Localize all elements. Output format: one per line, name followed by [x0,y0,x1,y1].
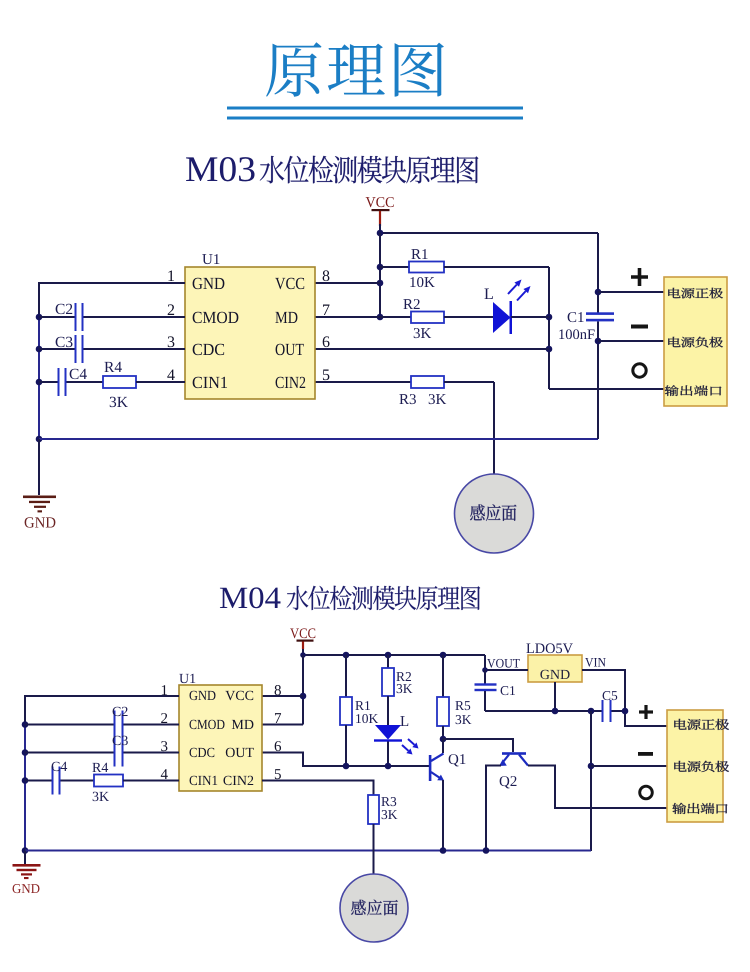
node VCC rail junction [377,230,384,237]
op IC U1 M03 [185,254,315,399]
wire R1 right [444,266,549,268]
pin numbers U1 left M03 [167,270,174,380]
pin numbers U1 right M03 [323,270,330,380]
wire C1 branch bottom [597,322,599,440]
node VCC rail corner [300,652,306,658]
wire bus to C3 [39,348,76,350]
wire MD row to R2 [315,316,411,318]
wire pin1 GND row M04 [25,696,179,725]
wire bus to C3 M04 [25,752,115,754]
capacitor C2 [56,303,84,331]
wire C5 to VIN vertical [612,710,626,712]
capacitor C2 M04 [113,707,128,739]
wire pin8 to bus M04 [262,695,303,697]
node plus row junction [595,289,602,296]
wire R2 top stub M04 [387,655,389,668]
wire bus to C4 [39,381,58,383]
wire C2 to pin2 [84,316,186,318]
connector port box M03 [664,277,727,406]
wire VCC stub to rail M04 [302,649,304,655]
node R1 bottom junction M04 [343,763,350,770]
output symbol O M03 [633,364,646,377]
wire GND stem M03 [38,439,40,495]
wire R4 to pin4 M04 [123,780,179,782]
wire bottom GND bus [39,438,598,440]
minus symbol M04 [638,752,653,756]
ground GND M03 [23,496,56,528]
plus symbol M04 [639,705,653,719]
wire rail to VOUT corner [485,655,528,670]
wire ground branch vertical [590,711,592,851]
wire R1 left [380,266,409,268]
node R1 top junction [343,652,350,659]
ground GND M04 [13,864,41,893]
node VOUT junction [482,667,488,673]
node pin8 junction M04 [300,693,307,700]
minus symbol M03 [631,325,648,329]
resistor R5 [437,697,471,726]
node OUT pin junction [546,346,553,353]
wire R2 to LED M04 [387,696,389,725]
wire plus row [598,291,664,293]
node LED cathode junction M04 [385,763,392,770]
heading M03水位检测模块原理图 [186,156,478,184]
transistor Q2 [499,752,528,788]
wire left GND bus [38,317,40,439]
wire ground rail M04 [485,710,602,712]
wire LED cathode down M04 [387,742,389,767]
node bottom bus left junction M04 [22,847,29,854]
LED L arrows M04 [402,739,419,755]
capacitor C3 M04 [113,736,128,767]
wire Q1 to Q2 base [443,739,513,752]
wire Q2 emitter to bus [486,766,501,852]
node C3 bus junction M04 [22,749,29,756]
resistor R3 [399,376,446,404]
pin names U1 right M03 [275,278,305,388]
LED L M04 [374,716,408,742]
pin names U1 left M04 [189,691,224,785]
wire R2 to LED anode [444,316,493,318]
wire pin6 OUT to base row M04 [262,753,429,767]
wire pin1 GND row [39,283,185,317]
pin label VIN [585,658,606,667]
wire output row [549,388,664,390]
capacitor C3 [56,335,84,363]
capacitor C4 [58,368,87,396]
sensor pad 感应面 M04 [340,874,408,942]
wire LED cathode to OUT node [511,316,549,318]
wire R4 to pin4 [136,381,185,383]
wire pin7 MD to bus M04 [262,724,303,726]
node LED cathode junction [546,314,553,321]
wire R5 top stub [442,655,444,697]
power flag VCC net M04 [290,628,315,649]
regulator LDO5V [526,643,582,682]
node C4 bus junction M04 [22,777,29,784]
node ground branch junction [588,708,595,715]
wire OUT node vertical [548,267,550,389]
node pin8 row junction [377,280,384,287]
pin label VOUT [487,659,520,668]
title 原理图 [266,42,444,97]
node Q2 emitter junction [483,847,490,854]
wire bus to C4 M04 [25,780,53,782]
wire C3 to pin3 M04 [124,752,180,754]
node C2 bus junction [36,314,43,321]
sensor pad 感应面 M03 [455,474,534,553]
transistor Q1 [429,754,466,782]
wire minus row [598,340,664,342]
title double underline [227,107,523,110]
pin names U1 right M04 [223,691,253,785]
wire bus to C2 M04 [25,724,115,726]
wire LDO GND pin [554,682,556,711]
capacitor C1 100nF [559,312,614,339]
pin names U1 left M03 [193,278,239,388]
resistor R2 [403,299,444,338]
capacitor C4 M04 [52,762,68,795]
wire bottom GND bus M04 [25,850,591,852]
wire pin5 CIN2 row M04 [262,781,374,796]
wire bus to C2 [39,316,76,318]
node Q1 collector junction [440,736,447,743]
wire Q2 collector to output [528,766,667,809]
node R2 row junction [377,314,384,321]
power flag VCC net M03 [366,197,394,226]
wire Q1 collector [442,739,444,753]
wire left GND bus M04 [24,725,26,851]
wire C1 branch top [597,233,599,313]
node R5 top junction [440,652,447,659]
capacitor C5 [602,691,618,722]
wire minus row M04 [591,765,667,767]
node minus row junction M04 [588,763,595,770]
node R1 row junction [377,264,384,271]
LED L arrows [508,280,531,301]
port label 输出端口 M03 [665,385,722,396]
output symbol O M04 [640,786,653,799]
port label 电源正极 M04 [674,719,729,730]
wire VCC bus vertical M04 [302,655,304,725]
wire C3 to pin3 [84,348,186,350]
heading M04水位检测模块原理图 [220,586,480,610]
wire GND stem M04 [24,851,26,865]
wire C4 to R4 [67,381,104,383]
port label 电源负极 M03 [668,337,723,348]
wire VCC stub to rail [379,224,381,233]
wire VIN to plus [582,670,667,726]
port label 电源负极 M04 [674,761,729,772]
wire VCC bus vertical [379,233,381,317]
wire OUT pin row [315,348,549,350]
LED L [484,289,512,334]
node R2 top junction [385,652,392,659]
wire Q1 emitter to bus [442,780,444,851]
node LDO GND junction [552,708,559,715]
port label 输出端口 M04 [672,803,727,814]
node Q1 emitter junction [440,847,447,854]
connector port box M04 [667,710,723,822]
wire R1 top stub M04 [345,655,347,697]
capacitor C1 M04 [475,670,515,711]
wire CIN2 row to R3 [315,381,411,383]
node C3 bus junction [36,346,43,353]
pin numbers U1 left M04 [161,685,168,779]
node bottom bus left junction [36,436,43,443]
wire pin8 VCC to bus [315,282,380,284]
node C2 bus junction M04 [22,721,29,728]
wire R1 bottom stub M04 [345,725,347,766]
resistor R4 M04 [92,763,123,801]
op IC U1 M04 [179,674,262,791]
wire R3 to sensor stem [444,381,494,383]
port label 电源正极 M03 [668,288,723,299]
pin numbers U1 right M04 [275,685,281,779]
resistor R2 M04 [382,668,412,696]
wire R3 to sensor M04 [373,824,375,874]
node VIN C5 junction [622,708,629,715]
wire top rail [380,232,598,234]
resistor R1 M04 [340,697,378,725]
resistor R3 M04 [368,795,397,824]
wire top rail M04 [303,654,485,656]
wire sensor stem vertical [493,382,495,474]
wire C2 to pin2 M04 [124,724,180,726]
resistor R4 [103,362,136,407]
wire C4 to R4 M04 [61,780,95,782]
wire R5 bottom stub [442,726,444,739]
node C4 bus junction [36,379,43,386]
plus symbol M03 [631,268,648,286]
node minus row junction [595,338,602,345]
resistor R1 [409,249,444,287]
